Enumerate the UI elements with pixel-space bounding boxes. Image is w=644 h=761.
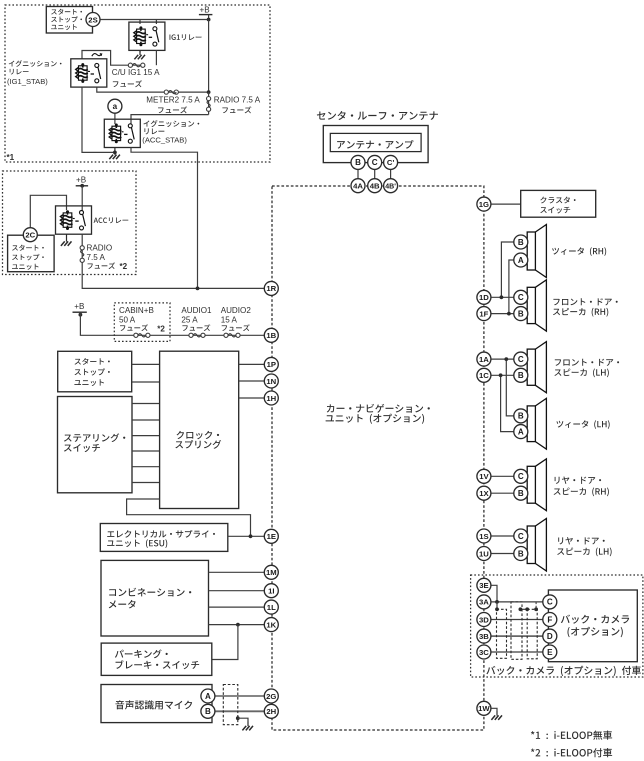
connector 1D bbox=[477, 290, 491, 304]
fuse CABIN+B 50A bbox=[134, 333, 138, 337]
svg-text:2C: 2C bbox=[25, 231, 35, 240]
start-stop unit box (mid) bbox=[58, 351, 132, 392]
front door LH terminal B bbox=[514, 368, 528, 382]
label antenna amp bbox=[337, 140, 413, 149]
svg-text:B: B bbox=[518, 549, 524, 558]
wires clock spring to 1P 1N 1H bbox=[239, 363, 265, 365]
label ACC relay bbox=[94, 217, 129, 223]
rear door LH terminal C bbox=[514, 529, 528, 543]
wire tweeter A (RH) bbox=[509, 260, 514, 314]
svg-text:RADIO 7.5 A: RADIO 7.5 A bbox=[214, 95, 261, 104]
steering switch box bbox=[58, 397, 133, 493]
wire 1S to rear speaker C (LH) bbox=[491, 535, 514, 537]
shield dashed box 2 bbox=[511, 602, 522, 659]
start-stop unit box (top) bbox=[46, 7, 92, 34]
wire 1X to rear speaker B (RH) bbox=[491, 492, 514, 494]
junction METER2/RADIO bbox=[207, 90, 211, 94]
junction 1F/tweeter bbox=[507, 312, 511, 316]
svg-text:*2: *2 bbox=[157, 324, 165, 333]
wire 1F to front speaker B (RH) bbox=[491, 313, 514, 315]
wire ACC fuse to 1R bbox=[82, 262, 264, 288]
connector 1P bbox=[264, 357, 278, 371]
connector 3A bbox=[477, 595, 491, 609]
rear door RH terminal C bbox=[514, 469, 528, 483]
connector 3E bbox=[477, 578, 491, 592]
svg-text:(ACC_STAB): (ACC_STAB) bbox=[142, 135, 187, 144]
svg-text:1H: 1H bbox=[266, 394, 276, 403]
connector 2H bbox=[264, 704, 278, 718]
dashed block *2 (ACC relay block, i-ELOOP with) bbox=[3, 171, 137, 275]
note i-ELOOP *2 bbox=[531, 748, 612, 757]
label cluster switch bbox=[540, 197, 575, 204]
svg-text:3D: 3D bbox=[479, 615, 489, 624]
connector 1N bbox=[264, 374, 278, 388]
start-stop unit text (ACC block) bbox=[12, 245, 44, 251]
connector 1M bbox=[264, 565, 278, 579]
wire ESU to 1E bbox=[228, 535, 265, 537]
connector 4B' bbox=[384, 179, 398, 193]
relay ACC_STAB bbox=[104, 119, 140, 147]
svg-text:C: C bbox=[518, 532, 524, 541]
antenna stubs to nav connectors bbox=[357, 169, 359, 186]
svg-text:3A: 3A bbox=[479, 598, 489, 607]
svg-text:*2: *2 bbox=[120, 262, 128, 271]
antenna terminal B bbox=[351, 155, 365, 169]
tweeter LH terminal A bbox=[514, 425, 528, 439]
connector 4A bbox=[351, 179, 365, 193]
shield dashed box 1 bbox=[497, 609, 507, 658]
front door RH terminal B bbox=[514, 307, 528, 321]
svg-text:+B: +B bbox=[76, 175, 86, 184]
connector 1C bbox=[477, 368, 491, 382]
wire 1C to front speaker B (LH) bbox=[491, 374, 514, 376]
tweeter RH speaker bbox=[527, 232, 535, 270]
svg-text:7.5 A: 7.5 A bbox=[87, 253, 106, 262]
shield dashed box 3 bbox=[527, 609, 537, 659]
svg-text:AUDIO2: AUDIO2 bbox=[221, 306, 252, 315]
back camera unit box bbox=[548, 590, 637, 662]
back camera outer dashed box bbox=[471, 575, 643, 677]
rear door RH terminal B bbox=[514, 486, 528, 500]
svg-text:1G: 1G bbox=[479, 200, 489, 209]
connector 1U bbox=[477, 547, 491, 561]
connector 1S bbox=[477, 529, 491, 543]
wire +B to 1B bbox=[80, 312, 264, 335]
label front door speaker LH bbox=[555, 359, 619, 366]
wire RADIO fuse to ACC_STAB switch bbox=[131, 115, 209, 124]
connector 1V bbox=[477, 469, 491, 483]
relay IG1_STAB (ignition relay) bbox=[71, 59, 107, 87]
ground of 1W bbox=[490, 708, 497, 711]
wire IG1_STAB switch to METER2 fuse row bbox=[97, 87, 164, 92]
svg-text:2G: 2G bbox=[266, 692, 276, 701]
label back camera option car bbox=[486, 666, 641, 676]
wire 1A to front speaker C (LH) bbox=[491, 358, 514, 360]
wire 2C to ACC coil bbox=[30, 195, 66, 228]
connector 2S bbox=[86, 13, 100, 27]
svg-text:1P: 1P bbox=[267, 360, 276, 369]
connector 3B bbox=[477, 629, 491, 643]
svg-text:50 A: 50 A bbox=[119, 315, 136, 324]
svg-text:B: B bbox=[355, 158, 361, 167]
svg-text:B: B bbox=[518, 371, 524, 380]
car navigation unit dashed box bbox=[272, 186, 484, 730]
connector 1W bbox=[477, 701, 491, 715]
microphone box bbox=[101, 685, 212, 723]
label car navigation unit bbox=[327, 404, 430, 413]
junction 3E/3A bbox=[495, 600, 499, 604]
svg-text:1I: 1I bbox=[268, 587, 274, 596]
label steering switch bbox=[64, 433, 125, 442]
junction at +B bbox=[207, 18, 211, 22]
connector 1F bbox=[477, 307, 491, 321]
front door RH terminal C bbox=[514, 290, 528, 304]
svg-text:C: C bbox=[518, 293, 524, 302]
svg-text:C: C bbox=[518, 472, 524, 481]
dashed box CABIN+B fuse bbox=[114, 303, 170, 342]
connector 4B bbox=[368, 179, 382, 193]
label ESU bbox=[107, 530, 215, 538]
svg-text:1K: 1K bbox=[266, 620, 276, 629]
label parking brake switch bbox=[115, 649, 168, 658]
label ignition relay IG1_STAB bbox=[9, 60, 62, 67]
connector 2C bbox=[23, 228, 37, 242]
connector 1R bbox=[264, 281, 278, 295]
svg-text:C: C bbox=[547, 598, 553, 607]
relay ACC bbox=[56, 206, 92, 234]
rear door speaker LH bbox=[527, 526, 535, 564]
svg-text:15 A: 15 A bbox=[221, 315, 238, 324]
junction on 1R wire bbox=[196, 287, 200, 291]
svg-text:3B: 3B bbox=[479, 632, 489, 641]
wire 1U to rear speaker B (LH) bbox=[491, 553, 514, 555]
svg-text:A: A bbox=[205, 692, 211, 701]
tweeter RH terminal A bbox=[514, 253, 528, 267]
ground of IG1 relay coil bbox=[139, 50, 141, 52]
svg-text:CABIN+B: CABIN+B bbox=[119, 306, 154, 315]
svg-text:1R: 1R bbox=[266, 284, 276, 293]
svg-text:A: A bbox=[518, 256, 524, 265]
wire tweeter A (LH) bbox=[501, 375, 514, 431]
label tweeter RH bbox=[552, 247, 606, 256]
junction on 1K wire bbox=[236, 623, 240, 627]
svg-text:B: B bbox=[518, 412, 524, 421]
front door speaker LH bbox=[527, 349, 535, 385]
svg-text:AUDIO1: AUDIO1 bbox=[181, 306, 212, 315]
svg-text:(IG1_STAB): (IG1_STAB) bbox=[7, 77, 48, 86]
start-stop unit box text bbox=[51, 9, 82, 15]
svg-text:3C: 3C bbox=[479, 648, 489, 657]
wire 1V to rear speaker C (RH) bbox=[491, 475, 514, 477]
cluster switch box bbox=[521, 190, 596, 217]
camera terminal C bbox=[543, 595, 557, 609]
center roof antenna outer box bbox=[323, 126, 428, 163]
svg-text:1N: 1N bbox=[266, 377, 276, 386]
front door speaker RH bbox=[527, 287, 535, 323]
mic shield ground bbox=[236, 716, 240, 720]
svg-text:25 A: 25 A bbox=[181, 315, 198, 324]
label tweeter LH bbox=[556, 420, 609, 429]
fuse AUDIO1 25A bbox=[189, 333, 193, 337]
svg-text:2S: 2S bbox=[88, 15, 97, 24]
label combination meter bbox=[109, 588, 191, 597]
wire +B down to METER2/RADIO fuse node bbox=[208, 20, 210, 93]
wire tweeter B (RH) bbox=[501, 242, 514, 297]
wire 3D to camera F bbox=[491, 619, 543, 621]
fuse RADIO 7.5A (vertical) bbox=[208, 92, 210, 115]
svg-text:4B': 4B' bbox=[385, 184, 396, 191]
svg-text:1A: 1A bbox=[479, 355, 489, 364]
connector 1H bbox=[264, 391, 278, 405]
ground of ACC relay coil bbox=[66, 234, 68, 237]
camera terminal D bbox=[543, 629, 557, 643]
tweeter RH terminal B bbox=[514, 235, 528, 249]
svg-text:1S: 1S bbox=[479, 532, 488, 541]
connector 1E bbox=[264, 529, 278, 543]
svg-text:A: A bbox=[518, 427, 524, 436]
connector 1I bbox=[264, 584, 278, 598]
antenna terminal C bbox=[368, 155, 382, 169]
connector 1L bbox=[264, 600, 278, 614]
svg-text:2H: 2H bbox=[266, 707, 276, 716]
svg-text:B: B bbox=[518, 309, 524, 318]
wire 1D to front speaker C (RH) bbox=[491, 296, 514, 298]
antenna amp inner box bbox=[330, 133, 421, 151]
svg-text:F: F bbox=[547, 615, 552, 624]
wire 3C to camera E bbox=[491, 651, 543, 653]
node a circle bbox=[114, 113, 116, 124]
svg-text:B: B bbox=[205, 707, 211, 716]
svg-text:1C: 1C bbox=[479, 371, 489, 380]
connector 3C bbox=[477, 645, 491, 659]
mic shield dashed box bbox=[223, 685, 238, 725]
fuse C/U IG1 15A bbox=[128, 64, 145, 66]
tweeter LH terminal B bbox=[514, 409, 528, 423]
ESU box bbox=[100, 524, 228, 552]
wires start-stop to clock spring bbox=[132, 363, 160, 365]
connector 3D bbox=[477, 613, 491, 627]
connector 2G bbox=[264, 689, 278, 703]
wire parking brake switch to 1K bbox=[212, 625, 238, 660]
relay IG1 bbox=[129, 22, 165, 50]
junction 1D/tweeter bbox=[500, 295, 504, 299]
junction at 1E wire bbox=[249, 534, 253, 538]
svg-text:1D: 1D bbox=[479, 293, 489, 302]
svg-text:+B: +B bbox=[74, 302, 84, 311]
wires combination meter to connectors bbox=[209, 571, 265, 573]
label rear door speaker RH bbox=[555, 476, 602, 483]
connector 1G bbox=[477, 197, 491, 211]
wire mic A to 2G bbox=[215, 695, 265, 697]
wire 3B to camera D bbox=[491, 635, 543, 637]
switch actuator arrow IG1_STAB bbox=[92, 54, 102, 57]
wire IG1 switch to C/U IG1 fuse bbox=[155, 50, 157, 65]
svg-text:C: C bbox=[372, 158, 378, 167]
wire ACC_STAB switch output down bbox=[131, 148, 198, 289]
wire 2S to +B node bbox=[100, 19, 209, 21]
svg-text:1F: 1F bbox=[479, 309, 488, 318]
rear door speaker RH bbox=[527, 466, 535, 503]
svg-text:+B: +B bbox=[200, 5, 210, 14]
wire tweeter B (LH) bbox=[506, 359, 514, 416]
camera terminal E bbox=[543, 645, 557, 659]
parking brake switch box bbox=[101, 643, 212, 675]
camera terminal F bbox=[543, 613, 557, 627]
wire +B to ACC relay switch bbox=[81, 186, 83, 211]
label rear door speaker LH bbox=[558, 537, 605, 544]
label ignition relay ACC_STAB bbox=[143, 120, 199, 127]
connector 1A bbox=[477, 352, 491, 366]
label IG1 relay bbox=[170, 34, 202, 40]
svg-text:1L: 1L bbox=[267, 603, 276, 612]
wires steering switch to clock spring bbox=[132, 403, 160, 405]
svg-text:1U: 1U bbox=[479, 549, 489, 558]
fuse RADIO 7.5A (ACC block) bbox=[81, 234, 83, 262]
wire IG1_STAB coil bottom down-right to ground node bbox=[82, 87, 115, 152]
svg-text:1B: 1B bbox=[266, 331, 276, 340]
svg-text:C': C' bbox=[387, 158, 395, 167]
wire C/U fuse to IG1_STAB coil bbox=[82, 51, 128, 66]
wire 1G to cluster switch bbox=[491, 203, 521, 205]
note i-ELOOP *1 bbox=[531, 731, 612, 740]
clock spring box bbox=[160, 351, 239, 508]
shield drain node row bbox=[496, 602, 498, 609]
svg-text:B: B bbox=[518, 238, 524, 247]
svg-text:E: E bbox=[547, 648, 553, 657]
tweeter LH speaker bbox=[527, 406, 535, 442]
svg-text:4B: 4B bbox=[370, 182, 380, 191]
start-stop unit text (mid) bbox=[74, 358, 109, 365]
svg-text:METER2 7.5 A: METER2 7.5 A bbox=[146, 95, 200, 104]
label front door speaker RH bbox=[553, 298, 617, 305]
svg-text:C: C bbox=[518, 355, 524, 364]
svg-text:B: B bbox=[518, 489, 524, 498]
relay IG1 stubs bbox=[139, 20, 141, 25]
label center roof antenna bbox=[317, 111, 438, 120]
svg-text:1W: 1W bbox=[478, 704, 490, 713]
svg-text:1E: 1E bbox=[267, 532, 276, 541]
mic terminal B bbox=[201, 704, 215, 718]
svg-text:RADIO: RADIO bbox=[87, 243, 113, 252]
wire 3A to camera C bbox=[491, 601, 543, 603]
svg-text:4A: 4A bbox=[353, 182, 363, 191]
mic terminal A bbox=[201, 689, 215, 703]
svg-text:D: D bbox=[547, 632, 553, 641]
ground node of ACC_STAB coil bbox=[114, 148, 116, 153]
start-stop unit box (ACC block) bbox=[8, 235, 55, 272]
svg-text:C/U IG1 15 A: C/U IG1 15 A bbox=[112, 68, 160, 77]
antenna terminal C' bbox=[384, 155, 398, 169]
svg-text:1M: 1M bbox=[266, 568, 277, 577]
svg-text:*1: *1 bbox=[7, 153, 15, 162]
combination meter box bbox=[101, 560, 209, 636]
connector 1X bbox=[477, 486, 491, 500]
svg-text:1X: 1X bbox=[479, 489, 489, 498]
label voice recognition microphone bbox=[115, 700, 192, 709]
connector 1B bbox=[264, 328, 278, 342]
connector 1K bbox=[264, 618, 278, 632]
wire clock spring to ESU/1E node bbox=[127, 499, 251, 536]
junction 1A/tweeter bbox=[504, 357, 508, 361]
fuse METER2 7.5A bbox=[164, 91, 208, 93]
label clock spring bbox=[177, 431, 220, 439]
label back camera bbox=[561, 615, 629, 624]
front door LH terminal C bbox=[514, 352, 528, 366]
wire mic B to 2H bbox=[215, 710, 265, 712]
rear door LH terminal B bbox=[514, 547, 528, 561]
dashed block *1 (ignition relay block, i-ELOOP without) bbox=[5, 5, 270, 162]
wire 3E to shield node bbox=[490, 585, 497, 602]
svg-text:3E: 3E bbox=[479, 581, 488, 590]
junction 1C/tweeter bbox=[499, 373, 503, 377]
fuse AUDIO2 15A bbox=[224, 333, 228, 337]
svg-text:a: a bbox=[113, 102, 118, 111]
svg-text:1V: 1V bbox=[479, 472, 489, 481]
